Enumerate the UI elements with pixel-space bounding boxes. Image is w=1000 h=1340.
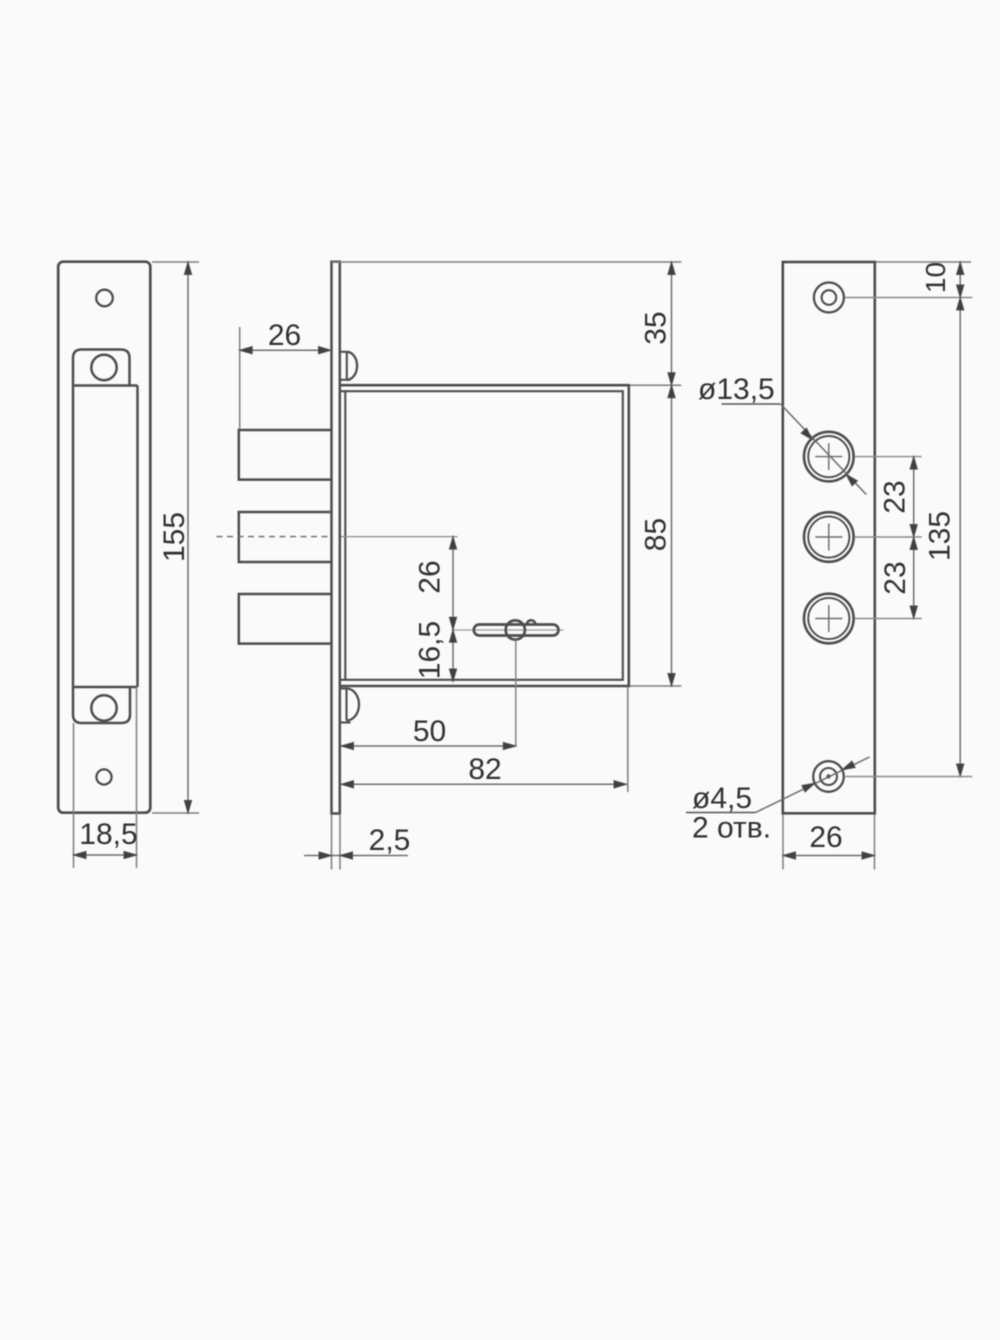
bottom screw boss lower tick [340,721,351,723]
dim 26 right line [783,855,875,857]
leader 13,5 diagonal [781,404,867,495]
top extension line y262 [332,261,681,263]
centerline dashed through bolt 2 [217,536,332,538]
top screw boss lower tick [341,379,350,381]
dim 23 line lower [913,537,915,619]
dim 18,5 extension lines [73,723,75,868]
bottom latch box [73,687,130,723]
top screw hole outer [814,283,844,313]
keyhole thin axis line [452,629,564,631]
hole 1 center extension [855,456,922,458]
bottom screw boss flat side [345,689,347,721]
svg-text:35: 35 [640,311,673,344]
dim 26 vertical line [452,537,454,630]
dim 18,5 line [74,854,137,856]
svg-text:18,5: 18,5 [79,818,137,851]
lock case left edge [72,386,75,688]
hole 2 center extension [855,536,922,538]
svg-text:10: 10 [920,262,951,293]
dim 26 bolt line [240,349,331,351]
dim 2,5 extension lines [331,814,333,870]
svg-text:ø13,5: ø13,5 [698,373,775,406]
dim 26 bolt extension line [239,327,241,429]
plate top extension line [876,261,971,263]
svg-text:23: 23 [879,480,912,513]
svg-text:26: 26 [414,560,447,593]
svg-text:2 отв.: 2 отв. [692,812,771,845]
top screw hole [96,290,113,307]
dim 82 extension line right [627,687,629,792]
leader 13,5 underline [722,403,781,405]
faceplate strip (side view) [332,262,340,814]
keyhole drop line to dim 50 [515,640,517,747]
faceplate outline (front view) [58,262,150,813]
dim 155 extension line bottom [152,812,199,814]
bolt hole 2 outer [804,512,854,562]
hole 3 center extension [855,618,922,620]
dim 155 extension line top [152,261,199,263]
leader 4,5 diagonal [756,757,870,813]
faceplate outline (back view) [783,262,875,813]
body-bottom extension line [630,685,681,687]
dim 23 line upper [913,457,915,537]
keyhole pill [474,625,559,636]
svg-text:82: 82 [468,753,501,786]
top screw hole inner [822,290,837,305]
top screw boss flat side [346,352,348,380]
bolt hole 1 inner [808,436,849,477]
keyhole circle [506,620,525,639]
dim 155 line [187,262,189,813]
centerline inside body [341,536,458,538]
RIGHT-VIEW [686,262,972,870]
bolt hole 3 crosshair [815,605,842,632]
bottom screw hole inner [820,768,837,785]
top latch circle [91,355,116,380]
body-top extension line [630,384,681,386]
svg-text:155: 155 [158,512,191,562]
dim 85 line [671,385,673,686]
top screw hole center line [845,297,972,299]
dim 16,5 line [452,630,454,682]
bottom screw center line [846,776,973,778]
svg-text:23: 23 [879,561,912,594]
bottom screw hole center dot [826,774,830,778]
lock body outer wall [341,385,629,686]
bolt hole 2 crosshair [815,524,842,551]
dim 2,5 line [304,855,408,857]
svg-text:26: 26 [809,821,842,854]
svg-text:16,5: 16,5 [414,621,447,679]
step line under top latch box [73,384,138,387]
top screw boss arc [347,352,357,380]
dim 35 line [671,262,673,385]
dim 82 line [341,783,627,785]
lock case right edge [136,386,139,688]
dim 26 right extension lines [782,815,784,870]
dim 10 line [959,262,961,298]
bolt hole 2 inner [808,516,849,557]
svg-text:26: 26 [268,319,301,352]
leader 4,5 underline [686,812,756,814]
LEFT-VIEW [58,262,199,868]
svg-text:50: 50 [413,715,446,748]
svg-text:ø4,5: ø4,5 [692,782,752,815]
svg-text:2,5: 2,5 [369,824,411,857]
keyhole bump [527,620,536,624]
lock body inner wall [341,391,623,680]
bolt 2 [239,512,332,562]
lock case bottom step [73,686,138,689]
bolt hole 3 outer [804,594,854,644]
bottom screw boss arc [347,689,360,721]
bolt 1 [239,430,332,480]
lock body inner-left wall [344,391,346,680]
bolt 3 [239,594,332,644]
bottom screw hole outer [813,761,844,792]
dim 135 line [959,298,961,777]
bottom latch circle [91,695,116,720]
bolt hole 3 inner [808,598,849,639]
bolt hole 1 outer [804,432,854,482]
bottom screw boss tick [340,687,347,689]
dim 50 line [341,745,516,747]
bottom screw hole [96,769,111,784]
top screw boss tick [340,351,347,353]
MIDDLE-VIEW [217,262,682,870]
top latch box [73,350,130,386]
svg-text:135: 135 [924,511,957,561]
svg-text:85: 85 [640,518,673,551]
bolt hole 1 crosshair [815,443,842,470]
